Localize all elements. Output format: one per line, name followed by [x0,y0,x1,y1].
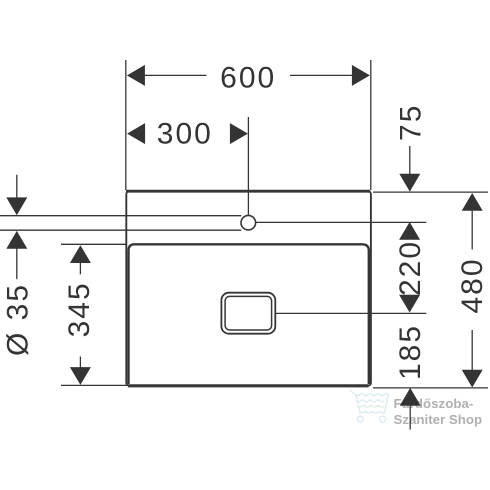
watermark bathtub icon [350,391,388,423]
dimension 345 lower shaft [79,357,81,369]
basin body inner outline [129,244,369,384]
dimension D35 tangent line top [0,215,241,217]
dimension 75 shaft [409,146,411,175]
dimension 345 arrow down [70,367,91,385]
svg-text:480: 480 [456,257,489,313]
svg-text:75: 75 [394,104,427,141]
dimension 600 line right segment [290,74,353,76]
dimension 345 extension line bottom [61,384,127,386]
dimension 75 arrow down [399,174,420,192]
dimension 345 arrow up [70,245,91,263]
dimension 220 arrow up [399,222,420,240]
dimension 300 arrow left [127,123,145,144]
drain leader line right [276,312,427,314]
svg-text:185: 185 [394,324,427,380]
centerline vertical [247,117,249,215]
dimension 600 arrow left [127,65,145,86]
basin outer outline [126,191,371,386]
drain box inner [225,296,272,330]
dimension 480 arrow up [462,193,483,211]
dimension D35 tangent line bottom [0,229,241,231]
bottom extension line right [373,387,488,389]
rim top extension line right [373,191,488,193]
faucet hole Ø35 [241,215,256,230]
dimension D35 arrow down [6,197,27,215]
dimension 600 extension line right [370,60,372,190]
dimension 600 arrow right [352,65,370,86]
dimension D35 arrow up [6,231,27,249]
dimension 345 upper shaft [79,263,81,275]
svg-text:345: 345 [63,281,96,337]
dimension D35 lower shaft [16,249,18,280]
svg-text:Ø 35: Ø 35 [1,283,34,356]
dimension 480 arrow down [462,370,483,388]
dimension 185 arrow up [400,388,421,406]
svg-text:300: 300 [157,118,213,151]
svg-text:600: 600 [220,62,276,95]
dimension D35 upper shaft [16,175,18,198]
basin top edge thick [126,190,370,193]
basin bottom edge thick [128,384,369,387]
dimension 220 arrow down [399,295,420,313]
dimension 185 lower shaft [409,406,411,430]
svg-text:220: 220 [394,240,427,296]
dimension 300 arrow right [230,123,248,144]
dimension 345 extension line top [61,243,126,245]
dimension 600 extension line left [125,60,127,190]
svg-text:Szaniter Shop: Szaniter Shop [394,412,483,427]
dimension 480 lower shaft [471,330,473,370]
faucet hole line right [256,221,427,223]
dimension 600 line left segment [145,74,207,76]
drain box outer [221,293,275,334]
dimension 480 upper shaft [471,211,473,250]
